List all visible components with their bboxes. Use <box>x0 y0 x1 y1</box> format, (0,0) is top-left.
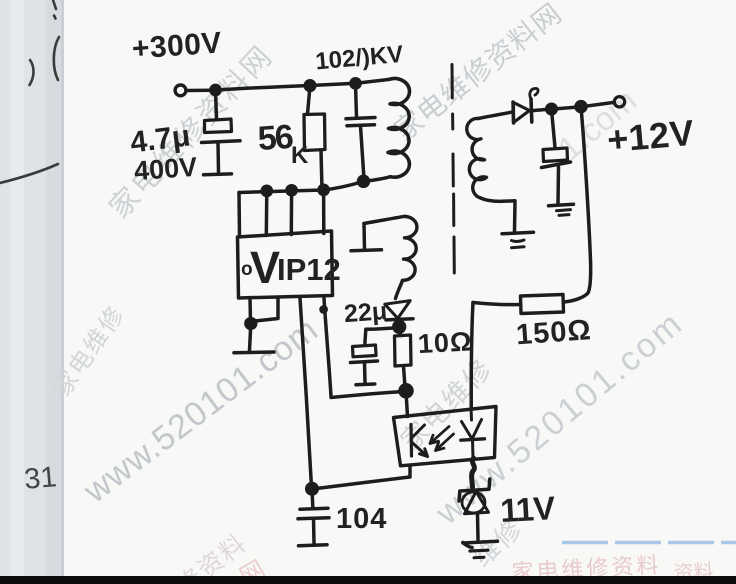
wire VIP12 pin bottom2 <box>252 298 278 322</box>
zener triangle <box>465 492 489 514</box>
wire aux stub <box>362 224 366 250</box>
zener diode ZD 11V bar <box>459 479 490 501</box>
blue dashed line bottom right <box>562 541 736 544</box>
wire secondary top lead <box>478 112 513 119</box>
capacitor C3 plate box <box>543 148 568 162</box>
resistor R3 150ohm body <box>521 295 564 314</box>
resistor R1 56K bottom lead <box>321 151 322 190</box>
capacitor C1 end bar <box>204 172 232 176</box>
node A big junction <box>400 385 412 397</box>
terminal +300V <box>175 85 186 96</box>
node rail e <box>576 102 586 112</box>
svg-text:104: 104 <box>336 503 387 535</box>
capacitor C3 plate line <box>542 162 571 168</box>
svg-text:+12V: +12V <box>605 112 695 160</box>
node top rail c <box>351 79 360 88</box>
svg-text:10Ω: 10Ω <box>417 326 473 359</box>
svg-text:+300V: +300V <box>131 26 223 65</box>
node pin bottom4 blob <box>321 307 326 312</box>
capacitor C4 lead <box>363 363 367 383</box>
opto light arrows <box>430 427 449 444</box>
wire VIP12 pin bottom4 <box>324 298 403 398</box>
capacitor C2 bottom lead <box>361 126 365 179</box>
main circuit ink <box>175 65 625 558</box>
capacitor C3 output lead <box>552 110 556 148</box>
transformer core dashed line <box>452 65 454 274</box>
svg-text:150Ω: 150Ω <box>515 314 593 351</box>
diode D2 cathode bar <box>386 319 413 320</box>
capacitor C5 plate1 <box>300 508 328 509</box>
zener lead <box>476 514 480 540</box>
node pin bottom1 <box>246 319 256 329</box>
wire VIP12 pin top1 <box>237 193 241 237</box>
svg-text:K: K <box>291 142 309 169</box>
node primary bottom <box>359 176 369 186</box>
zener loop <box>462 492 485 513</box>
capacitor C2 102/1KV top lead <box>356 84 357 117</box>
node rail d <box>547 104 557 114</box>
resistor R2 bottom lead <box>404 366 406 388</box>
bottom black bar <box>0 576 736 584</box>
resistor R2 10ohm top lead <box>400 328 401 336</box>
transformer T1 primary winding <box>388 78 409 177</box>
resistor R1 56K top lead <box>308 86 311 114</box>
wire primary bottom lead <box>364 177 391 182</box>
capacitor C5 end bar <box>299 545 328 546</box>
wire +12V rail <box>532 103 613 111</box>
ground VIP12 <box>234 350 274 354</box>
diode D2 triangle <box>385 301 410 319</box>
transformer T1 aux winding <box>403 217 417 281</box>
node bus c <box>319 185 328 194</box>
wire 150 left lead <box>473 303 521 305</box>
capacitor C4 plate line <box>351 361 378 363</box>
capacitor C4 end bar <box>356 382 375 386</box>
svg-text:IP12: IP12 <box>277 252 341 287</box>
ground output cap <box>549 204 574 206</box>
wire bus to VIP12 <box>239 182 363 193</box>
capacitor C1 plate box <box>205 119 232 133</box>
capacitor C2 plate1 <box>346 118 375 119</box>
transformer T1 aux winding end bar <box>351 250 382 251</box>
capacitor C5 lower lead <box>312 519 316 544</box>
node bus b <box>287 186 296 195</box>
wire top rail <box>187 79 390 90</box>
svg-text:22μ: 22μ <box>343 297 388 328</box>
wire VIP12 pin top4 <box>322 190 326 234</box>
resistor R1 56K body <box>304 114 325 151</box>
wire VIP12 pin top3 <box>290 191 294 235</box>
diode D3 stray stroke <box>530 88 538 99</box>
wire VIP12 pin bottom3 long <box>300 298 312 487</box>
node diode out <box>394 321 405 332</box>
capacitor C4 22u plate box <box>353 345 377 357</box>
opto U2 box <box>394 407 497 466</box>
capacitor C5 104 lead <box>310 490 314 508</box>
svg-text:11V: 11V <box>499 489 556 529</box>
svg-text:31: 31 <box>23 461 58 496</box>
stray pen marks top-left <box>0 0 59 183</box>
wire aux to diode <box>396 281 403 299</box>
transistor Q opto phototransistor <box>409 425 413 457</box>
wire VIP12 pin top2 <box>265 191 269 236</box>
wire to C4 22u <box>365 328 399 346</box>
wire +12V down to 150 <box>564 107 591 302</box>
ground zener <box>463 541 498 547</box>
wire down to opto LED <box>471 303 473 408</box>
capacitor C2 plate2 <box>347 125 375 126</box>
wire opto pin bottom-right wiggle <box>472 458 475 487</box>
capacitor C1 plate line <box>202 141 241 143</box>
node top rail a <box>211 85 220 94</box>
svg-text:V: V <box>250 242 280 293</box>
diode LED inside opto <box>470 408 474 421</box>
wire opto pin bottom-left <box>408 466 412 477</box>
capacitor C1 bottom lead <box>216 143 220 173</box>
capacitor C3 lower lead <box>556 167 560 204</box>
resistor R2 10ohm body <box>395 335 412 366</box>
wire secondary bottom lead <box>481 198 516 231</box>
diode D3 secondary rectifier <box>511 102 515 123</box>
svg-text:56: 56 <box>257 118 294 158</box>
wire 104 junction to opto <box>313 477 410 489</box>
left page-edge gray band <box>0 0 63 584</box>
wire opto pin top-left <box>406 392 408 417</box>
op-amp U1 VIP12 box <box>238 231 333 298</box>
node top rail b <box>305 81 315 91</box>
node bus a <box>262 186 271 195</box>
node 104 junction <box>307 484 318 495</box>
wire VIP12 pin bottom1 <box>250 298 251 351</box>
svg-text:400V: 400V <box>133 152 198 186</box>
wire aux top lead <box>364 216 405 223</box>
transformer T1 secondary winding <box>467 118 487 198</box>
capacitor C5 plate2 <box>298 518 329 519</box>
ground secondary <box>502 232 534 234</box>
capacitor C1 4.7u 400V lead <box>216 91 217 119</box>
terminal +12V <box>614 97 624 107</box>
